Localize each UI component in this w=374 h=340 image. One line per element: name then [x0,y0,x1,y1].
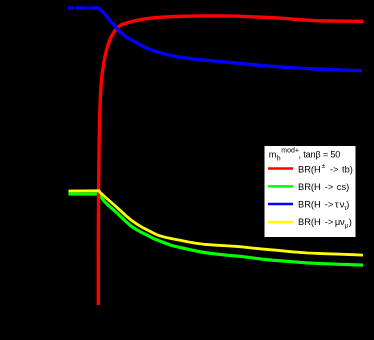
legend red line swatch [268,167,293,170]
svg-text:BR(H: BR(H [298,165,321,175]
legend entry BR(H± -> tb) [298,163,353,175]
svg-text:->: -> [330,165,339,175]
svg-text:): ) [349,217,352,227]
svg-text:BR(H: BR(H [298,199,321,209]
legend blue line swatch [268,203,293,206]
blue curve BR(H -> tau nu), flat dashed start segment 1 [68,6,74,9]
green curve BR(H -> cs) [69,194,364,265]
svg-text:τ: τ [335,199,339,209]
legend yellow line swatch [268,221,293,224]
blue curve main descending branch [89,8,362,71]
legend box [265,146,356,237]
svg-text:BR(H: BR(H [298,182,321,192]
svg-text:->: -> [325,217,334,227]
svg-text:): ) [346,199,349,209]
legend entry BR(H -> mu nu_mu) [298,217,352,230]
yellow curve BR(H -> mu nu) [69,191,364,255]
svg-text:tb): tb) [342,165,353,175]
svg-text:->: -> [325,199,334,209]
blue curve flat segment 2 [76,6,88,9]
legend entry BR(H -> tau nu_tau) [298,199,349,212]
svg-text:m: m [269,149,277,159]
svg-text:cs): cs) [337,182,349,192]
legend green line swatch [268,185,293,188]
svg-text:mod+: mod+ [281,147,299,154]
svg-text:, tanβ = 50: , tanβ = 50 [299,149,341,159]
svg-text:BR(H: BR(H [298,217,321,227]
red curve BR(H± -> tb) [98,16,363,305]
svg-text:±: ± [322,163,326,170]
svg-text:h: h [277,156,281,163]
legend entry BR(H -> cs) [298,182,349,192]
legend header m_h^mod+, tanbeta = 50 [269,147,340,162]
svg-text:->: -> [325,182,334,192]
